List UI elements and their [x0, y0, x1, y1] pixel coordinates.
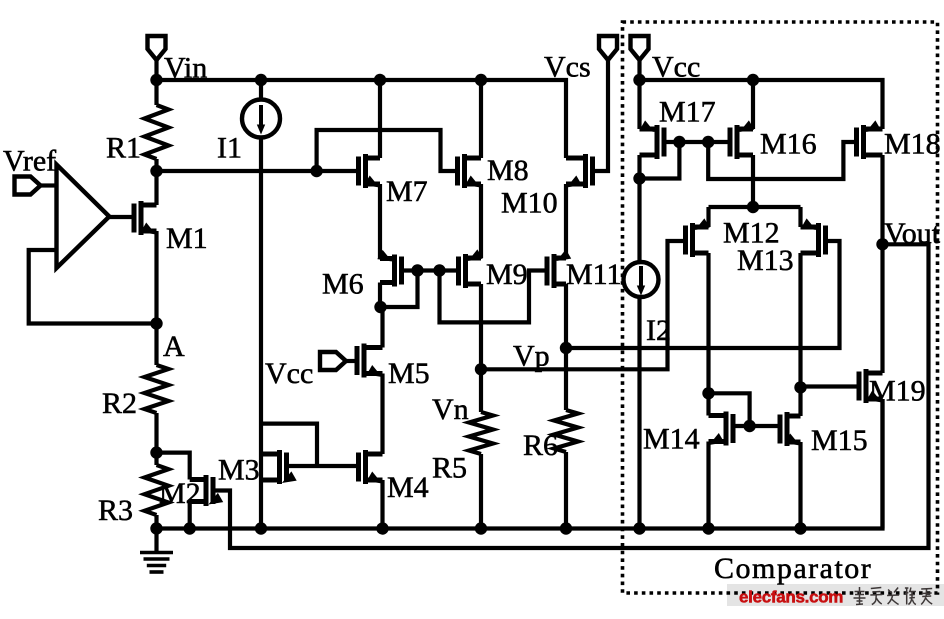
- svg-text:R6: R6: [523, 429, 558, 462]
- svg-text:M10: M10: [501, 187, 558, 220]
- svg-text:M5: M5: [388, 357, 430, 390]
- svg-text:Vp: Vp: [513, 340, 550, 373]
- svg-text:Vcs: Vcs: [544, 51, 591, 84]
- svg-text:I2: I2: [646, 314, 671, 347]
- svg-text:M18: M18: [884, 128, 941, 161]
- svg-text:Vn: Vn: [432, 393, 469, 426]
- svg-text:M9: M9: [486, 258, 528, 291]
- svg-text:M2: M2: [159, 477, 201, 510]
- svg-text:M8: M8: [487, 154, 529, 187]
- svg-text:M7: M7: [386, 175, 428, 208]
- svg-text:R3: R3: [98, 494, 133, 527]
- svg-text:M6: M6: [322, 268, 364, 301]
- svg-text:M15: M15: [811, 424, 868, 457]
- svg-text:Vref: Vref: [3, 144, 56, 177]
- svg-text:Vout: Vout: [884, 217, 941, 250]
- svg-text:R5: R5: [432, 452, 467, 485]
- svg-text:A: A: [163, 330, 185, 363]
- svg-text:Vcc: Vcc: [265, 357, 313, 390]
- svg-text:M13: M13: [737, 244, 794, 277]
- svg-text:R1: R1: [106, 132, 141, 165]
- svg-text:M11: M11: [566, 258, 622, 291]
- svg-text:M19: M19: [869, 375, 926, 408]
- svg-text:M1: M1: [166, 222, 208, 255]
- svg-text:Vin: Vin: [164, 52, 207, 85]
- svg-text:I1: I1: [217, 132, 242, 165]
- svg-text:M14: M14: [643, 423, 700, 456]
- svg-text:Comparator: Comparator: [714, 552, 872, 585]
- svg-text:M16: M16: [760, 128, 817, 161]
- svg-text:M17: M17: [659, 96, 716, 129]
- svg-text:M3: M3: [218, 454, 260, 487]
- svg-text:M4: M4: [387, 471, 429, 504]
- svg-text:elecfans.com: elecfans.com: [739, 588, 843, 607]
- svg-text:R2: R2: [102, 387, 137, 420]
- svg-text:Vcc: Vcc: [652, 51, 700, 84]
